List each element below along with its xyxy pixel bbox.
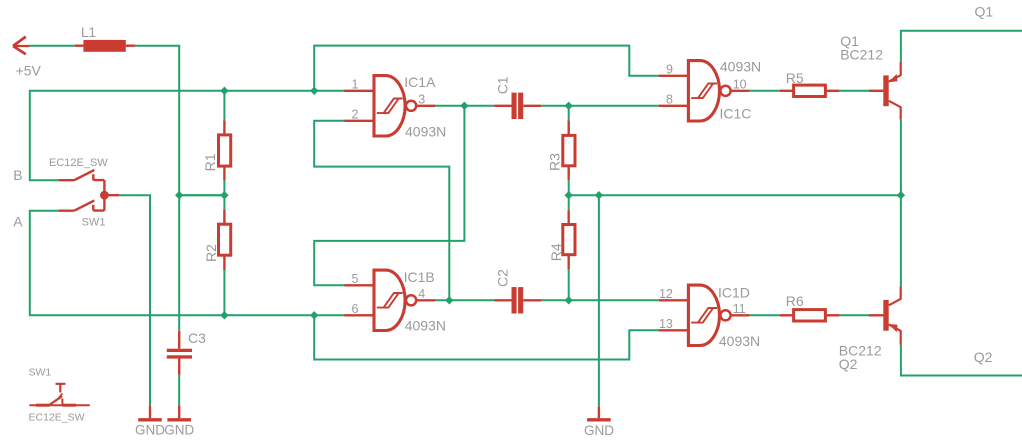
junction switch common	[100, 191, 109, 200]
resistor R6	[780, 310, 840, 321]
wire R4 top	[568, 195, 570, 210]
svg-text:IC1D: IC1D	[718, 284, 750, 300]
junction mid rail / Q1 Q2	[897, 191, 905, 199]
resistor R2	[219, 210, 231, 270]
svg-text:3: 3	[418, 92, 425, 106]
svg-text:1: 1	[351, 77, 358, 91]
power arrow +5V	[13, 37, 30, 55]
svg-text:11: 11	[733, 302, 746, 316]
wire IC1B output feedback to IC1A pin 2	[314, 121, 449, 300]
svg-text:8: 8	[666, 92, 673, 106]
svg-text:4: 4	[418, 287, 425, 301]
wire R4 bottom to C2 row	[568, 269, 570, 300]
svg-text:2: 2	[351, 107, 358, 121]
svg-text:R1: R1	[202, 153, 218, 171]
wire A input rail to IC1B pin 6 and IC1D pin 13	[30, 211, 659, 360]
svg-text:Q2: Q2	[974, 349, 993, 365]
ground right	[167, 406, 191, 420]
resistor R1	[219, 120, 231, 180]
capacitor C2	[494, 287, 541, 313]
svg-text:4093N: 4093N	[719, 333, 760, 349]
svg-text:R5: R5	[786, 70, 804, 86]
svg-text:EC12E_SW: EC12E_SW	[29, 412, 85, 424]
svg-text:4093N: 4093N	[405, 318, 446, 334]
resistor R3	[563, 120, 575, 180]
svg-text:4093N: 4093N	[405, 123, 446, 139]
junction IC1B output	[445, 296, 453, 304]
junction B rail / R1	[220, 87, 228, 95]
junction mid rail / GND	[595, 191, 603, 199]
svg-text:4093N: 4093N	[720, 59, 761, 75]
op-amp IC1C (NAND gate)	[659, 61, 750, 121]
ground middle	[587, 406, 611, 419]
transistor Q1	[869, 62, 901, 120]
wire +5V net from arrow to L1	[30, 45, 75, 47]
wire IC1C output to R5	[749, 90, 779, 92]
wire R2 bottom to A rail	[223, 270, 225, 315]
svg-text:Q2: Q2	[839, 356, 858, 372]
svg-text:R4: R4	[548, 243, 564, 261]
wire R5 to Q1 base	[839, 90, 869, 92]
svg-text:BC212: BC212	[840, 47, 883, 63]
wire B input rail to IC1A pin 1 and IC1C pin 9	[30, 46, 659, 181]
svg-text:5: 5	[351, 272, 358, 286]
op-amp IC1D (NAND gate)	[659, 285, 750, 345]
wire R1 top connection	[223, 91, 225, 121]
junction R3/R4	[565, 191, 573, 199]
wire mid rail R1/R2 junction row	[179, 194, 224, 196]
switch SW1	[59, 170, 119, 211]
wire switch common to left GND	[119, 195, 150, 405]
resistor R5	[780, 85, 840, 96]
wire C3 bottom to GND	[178, 375, 180, 406]
svg-text:Q1: Q1	[975, 3, 994, 19]
svg-text:C1: C1	[494, 76, 510, 94]
junction +5V line / mid row	[175, 191, 183, 199]
wire C1 to R3 and IC1C pin 8	[541, 106, 658, 121]
svg-text:L1: L1	[81, 25, 96, 40]
svg-text:13: 13	[659, 317, 673, 331]
switch SW1 secondary symbol	[29, 384, 89, 405]
resistor R4	[563, 210, 575, 269]
svg-text:B: B	[13, 167, 22, 183]
svg-text:A: A	[13, 213, 23, 229]
svg-text:R6: R6	[786, 293, 804, 309]
svg-text:9: 9	[666, 62, 673, 76]
junction C1/R3	[565, 102, 573, 110]
junction IC1A output	[460, 102, 468, 110]
svg-text:IC1C: IC1C	[720, 105, 752, 121]
wire Q1 emitter to top right output	[901, 31, 1022, 62]
junction R4/C2	[565, 296, 573, 304]
svg-text:GND: GND	[135, 423, 165, 438]
svg-text:SW1: SW1	[29, 366, 52, 378]
wire R3 bottom to mid rail	[568, 180, 570, 195]
wire mid rail to transistors	[569, 120, 901, 407]
svg-text:GND: GND	[584, 423, 614, 438]
wire C2 to IC1D pin 12	[541, 299, 658, 301]
svg-text:R3: R3	[547, 153, 563, 171]
svg-text:10: 10	[733, 77, 747, 91]
wire IC1D output to R6	[749, 314, 779, 316]
junction A rail / pin13 branch	[310, 311, 318, 319]
op-amp IC1B (NAND gate)	[344, 270, 435, 330]
wire R6 to Q2 base	[839, 314, 869, 316]
wire Q2 emitter to bottom right output	[901, 345, 1022, 376]
svg-text:GND: GND	[164, 423, 194, 438]
op-amp IC1A (NAND gate)	[344, 76, 435, 136]
svg-text:C3: C3	[188, 330, 206, 346]
svg-text:6: 6	[351, 302, 358, 316]
transistor Q2	[869, 287, 901, 345]
svg-text:SW1: SW1	[82, 217, 106, 229]
svg-text:R2: R2	[203, 244, 219, 262]
inductor L1	[75, 40, 135, 52]
ground left	[138, 406, 162, 420]
junction R1/R2	[220, 191, 228, 199]
svg-text:+5V: +5V	[16, 62, 42, 78]
capacitor C1	[494, 93, 541, 119]
wire IC1A output to C1 and feedback to IC1B pin 5	[314, 106, 494, 285]
wire IC1B output to C2	[435, 299, 494, 301]
svg-text:C2: C2	[494, 269, 510, 287]
wire +5V net after L1 down to C3 and to R1/R2 junction	[135, 46, 225, 331]
capacitor C3	[167, 331, 192, 375]
svg-text:IC1A: IC1A	[404, 74, 436, 90]
svg-text:EC12E_SW: EC12E_SW	[49, 157, 108, 169]
svg-text:IC1B: IC1B	[404, 269, 435, 285]
svg-text:12: 12	[659, 287, 673, 301]
junction B rail / pin1 branch	[310, 87, 318, 95]
junction A rail / R2	[220, 311, 228, 319]
wire R1 bottom to R2 top	[223, 180, 225, 210]
